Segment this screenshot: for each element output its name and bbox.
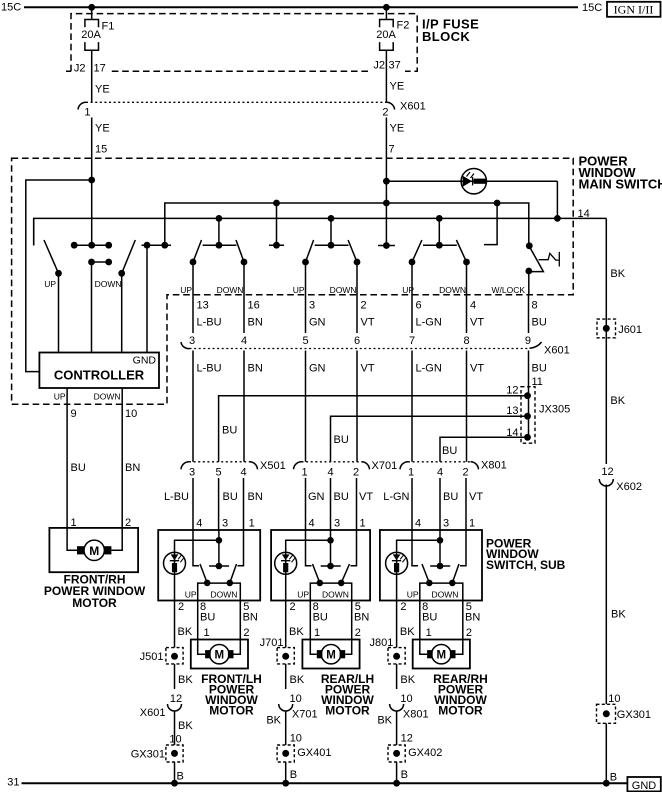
driver switch left bracket: [33, 218, 35, 245]
wire 31 ground bus: [22, 782, 628, 784]
svg-text:CONTROLLER: CONTROLLER: [54, 368, 145, 383]
svg-text:BK: BK: [611, 609, 626, 621]
svg-text:3: 3: [189, 467, 195, 479]
connector X801 left hook: [400, 462, 408, 470]
wire right bar to controller GND: [146, 245, 148, 352]
svg-text:L-BU: L-BU: [164, 491, 189, 503]
wlock detent symbol: [539, 252, 560, 267]
svg-text:SWITCH, SUB: SWITCH, SUB: [486, 558, 566, 572]
junction dot lamp branch sub1: [216, 537, 223, 544]
svg-text:BK: BK: [610, 268, 625, 280]
svg-text:BU: BU: [532, 363, 547, 375]
svg-text:X602: X602: [616, 481, 642, 493]
svg-text:37: 37: [389, 60, 401, 72]
svg-text:10: 10: [608, 693, 620, 705]
svg-text:BN: BN: [248, 317, 263, 329]
svg-text:4: 4: [327, 467, 333, 479]
connector X701 dashed line: [302, 461, 362, 463]
svg-text:X601: X601: [400, 101, 426, 113]
svg-text:8: 8: [532, 300, 538, 312]
svg-text:10: 10: [290, 693, 302, 705]
front-rh motor M: [84, 540, 104, 560]
sub switch 1 DOWN arm: [230, 564, 237, 583]
svg-text:14: 14: [578, 208, 590, 220]
svg-text:UP: UP: [44, 279, 56, 289]
wire VT X601-8 to X801-2: [466, 351, 468, 462]
svg-text:BN: BN: [243, 612, 258, 624]
svg-text:W/LOCK: W/LOCK: [491, 285, 525, 295]
wires switch4 contacts to pins 6 4: [412, 262, 467, 296]
svg-text:1: 1: [84, 107, 90, 119]
svg-text:BU: BU: [313, 612, 328, 624]
svg-text:X701: X701: [372, 460, 398, 472]
svg-text:BK: BK: [377, 715, 392, 727]
svg-text:DOWN: DOWN: [211, 589, 238, 599]
wire UP contact to controller: [58, 273, 60, 352]
svg-text:4: 4: [470, 300, 476, 312]
svg-text:X801: X801: [481, 459, 507, 471]
svg-text:GND: GND: [133, 355, 157, 367]
wire right rail BK pin 14 down: [605, 218, 607, 464]
group2 wire to GX401: [285, 711, 287, 745]
svg-text:BK: BK: [290, 674, 305, 686]
svg-text:3: 3: [222, 517, 228, 529]
sub switch 1 T bar: [209, 565, 229, 567]
junction dot at F1 feed: [88, 4, 95, 11]
switch4 UP arm: [412, 240, 422, 262]
wire F1 feed: [91, 7, 93, 19]
front-rh motor terminals: [77, 546, 84, 554]
svg-text:1: 1: [426, 627, 432, 639]
svg-text:20A: 20A: [81, 29, 101, 41]
svg-text:BN: BN: [465, 612, 480, 624]
svg-text:3: 3: [309, 300, 315, 312]
svg-text:20A: 20A: [376, 29, 396, 41]
junction dot lamp to bus2: [554, 215, 561, 222]
wlock pivot dot: [526, 242, 533, 249]
wire GN X601-5 to X701-1: [305, 351, 307, 462]
sub switch 1 UP arm: [200, 564, 207, 583]
group1 motor terminals: [205, 650, 211, 658]
wire JX305-14 to X801-4: [440, 437, 528, 462]
I/P fuse block dashed box: [66, 14, 417, 72]
switch4 T bar: [423, 244, 457, 246]
svg-text:BU: BU: [334, 434, 349, 446]
svg-text:J701: J701: [260, 637, 284, 649]
svg-text:MAIN SWITCH: MAIN SWITCH: [579, 176, 662, 191]
svg-text:GN: GN: [309, 317, 326, 329]
svg-text:BN: BN: [248, 491, 263, 503]
svg-text:3: 3: [334, 517, 340, 529]
bridge bar sw2/sw3: [269, 203, 284, 245]
connector JX305 dashed box: [521, 387, 535, 444]
connector J701 dashed box: [277, 648, 294, 664]
svg-text:5: 5: [302, 335, 308, 347]
sub switch 1 pin1 bracket: [238, 530, 244, 566]
svg-text:BN: BN: [354, 612, 369, 624]
svg-text:3: 3: [189, 335, 195, 347]
switch2 DOWN arm: [236, 240, 244, 262]
svg-text:2: 2: [353, 467, 359, 479]
svg-text:DOWN: DOWN: [94, 392, 121, 402]
svg-text:M: M: [437, 650, 447, 662]
wires pins to X601 with number gaps: [193, 296, 529, 334]
connector X701 left hook: [294, 462, 302, 470]
sub switch 1 pin4 bracket: [193, 530, 199, 566]
sub switch 3 contact rail: [420, 583, 463, 600]
svg-text:GX402: GX402: [408, 747, 442, 759]
sub switch 2 contact rail: [310, 583, 351, 600]
bridge sw4 right L: [484, 203, 497, 245]
fuse F1: [85, 20, 99, 51]
connector X601 mid left hook: [181, 342, 190, 349]
connector X601 mid right hook and label: [530, 342, 542, 348]
svg-text:17: 17: [94, 63, 106, 75]
switch4 center drop: [438, 218, 440, 245]
svg-text:2: 2: [355, 627, 361, 639]
svg-text:10: 10: [400, 693, 412, 705]
wires X801 to sub switch 3: [412, 478, 466, 530]
svg-text:GX401: GX401: [297, 747, 331, 759]
svg-text:BK: BK: [266, 715, 281, 727]
driver switch gang row2: [92, 261, 109, 263]
svg-text:BK: BK: [289, 626, 304, 638]
svg-text:VT: VT: [470, 363, 484, 375]
wire F2 feed: [385, 7, 387, 19]
connector X701 right hook and label: [362, 462, 370, 470]
wire JX305-13 to X701-4: [331, 416, 528, 462]
group1 motor wiring: [198, 640, 241, 655]
connector X801 dashed line: [408, 461, 471, 463]
wire gang row2 to controller: [91, 262, 93, 353]
svg-text:B: B: [610, 772, 617, 784]
sub switch 2 BU pin3 wire: [330, 530, 332, 566]
sub switch 2 T bar: [321, 565, 341, 567]
svg-text:X501: X501: [260, 460, 286, 472]
switch4 DOWN arm: [456, 240, 466, 262]
group3 motor wiring: [420, 640, 463, 655]
svg-text:5: 5: [216, 467, 222, 479]
connector X501 dashed line: [189, 461, 250, 463]
svg-text:B: B: [290, 769, 297, 781]
svg-text:9: 9: [525, 335, 531, 347]
svg-text:UP: UP: [407, 589, 419, 599]
connector X501 right hook and label: [250, 462, 258, 470]
wire F1 to J2-17: [91, 50, 93, 102]
svg-text:F2: F2: [397, 20, 410, 32]
group2 wire to X701 inline: [285, 664, 287, 689]
wire L-BU X601-3 to X501-3: [192, 351, 194, 462]
group1 BK lamp ground wire: [174, 601, 176, 648]
svg-text:BK: BK: [178, 720, 193, 732]
svg-text:13: 13: [197, 300, 209, 312]
wires X701 to sub switch 2: [306, 478, 357, 530]
wires switch3 contacts to pins 3 2: [306, 262, 358, 296]
svg-text:M: M: [326, 650, 336, 662]
svg-text:MOTOR: MOTOR: [72, 596, 117, 610]
wire controller UP pin 9: [66, 388, 68, 528]
svg-text:DOWN: DOWN: [322, 589, 349, 599]
sub switch 2 box rear-lh: [271, 530, 370, 601]
svg-text:YE: YE: [95, 123, 110, 135]
svg-text:MOTOR: MOTOR: [325, 704, 370, 718]
ground connector GX301 right rail: [597, 704, 616, 723]
svg-text:3: 3: [443, 517, 449, 529]
svg-text:VT: VT: [361, 363, 375, 375]
svg-text:12: 12: [170, 693, 182, 705]
connector J801 dashed box: [388, 648, 405, 664]
svg-text:YE: YE: [390, 123, 405, 135]
driver switch UP arm: [44, 240, 59, 273]
svg-text:L-BU: L-BU: [197, 363, 222, 375]
sub switch 2 DOWN arm: [341, 564, 349, 583]
wire VT X601-6 to X701-2: [356, 351, 358, 462]
svg-text:1: 1: [204, 627, 210, 639]
junction dot bus1 bridge sw4: [494, 200, 501, 207]
svg-text:BU: BU: [222, 425, 237, 437]
svg-text:GX301: GX301: [617, 709, 651, 721]
fuse F2: [380, 20, 394, 51]
controller box: [39, 353, 159, 389]
svg-text:IGN I/II: IGN I/II: [614, 3, 654, 17]
group1 wire B to ground bus: [174, 762, 176, 783]
sub switch 2 pin4 bracket: [306, 530, 312, 566]
svg-text:1: 1: [249, 517, 255, 529]
wlock switch arm: [529, 249, 544, 272]
svg-text:DOWN: DOWN: [330, 285, 357, 295]
wire pin15 into switch: [91, 158, 93, 245]
svg-text:L-GN: L-GN: [416, 317, 442, 329]
svg-text:BK: BK: [178, 674, 193, 686]
group1 motor M: [210, 645, 229, 664]
svg-text:L-GN: L-GN: [416, 363, 442, 375]
power window main switch dashed outline: [12, 158, 574, 404]
wire right rail to ground bus: [605, 723, 607, 783]
switch3 DOWN arm: [348, 240, 357, 262]
svg-text:JX305: JX305: [539, 404, 570, 416]
svg-text:15C: 15C: [1, 2, 21, 14]
junction dot bus1 bridge sw2/sw3: [273, 200, 280, 207]
svg-text:BLOCK: BLOCK: [422, 29, 470, 44]
wire bus1 upper: [165, 203, 529, 246]
wire bus2 lower to pin 14: [34, 218, 607, 245]
switch3 UP arm: [306, 240, 314, 262]
group1 motor box front-lh: [191, 640, 248, 669]
svg-text:4: 4: [437, 467, 443, 479]
sub switch 3 DOWN arm: [452, 564, 459, 583]
illumination LED sub2: [275, 552, 297, 574]
svg-text:10: 10: [125, 408, 137, 420]
svg-text:MOTOR: MOTOR: [209, 704, 254, 718]
switch3 T bar: [315, 244, 349, 246]
wire F2 to J2-37: [385, 50, 387, 102]
wire 15C power bus top: [24, 6, 578, 8]
group3 wires to motor: [420, 601, 463, 640]
group3 motor terminals: [427, 650, 433, 658]
svg-text:2: 2: [361, 300, 367, 312]
svg-text:L-GN: L-GN: [383, 491, 409, 503]
svg-text:B: B: [401, 769, 408, 781]
svg-text:31: 31: [7, 777, 19, 789]
svg-text:VT: VT: [469, 491, 483, 503]
svg-text:GX301: GX301: [131, 749, 165, 761]
driver switch UP contact dot: [55, 270, 62, 277]
svg-text:M: M: [89, 544, 99, 558]
group2 motor M: [321, 645, 340, 664]
svg-text:1: 1: [360, 517, 366, 529]
group3 BK lamp ground wire: [396, 601, 398, 648]
svg-text:4: 4: [240, 467, 246, 479]
junction dot lamp tap: [383, 178, 390, 185]
wire YE X601-1 to main switch pin 15: [91, 118, 93, 159]
svg-text:L-BU: L-BU: [197, 317, 222, 329]
driver switch DOWN contact dot: [118, 270, 125, 277]
svg-text:1: 1: [408, 467, 414, 479]
junction dot bus1 pin7: [383, 200, 390, 207]
group3 motor box rear-rh: [413, 640, 470, 669]
svg-text:1: 1: [314, 627, 320, 639]
svg-text:UP: UP: [54, 392, 66, 402]
connector J501 dashed box: [166, 648, 183, 664]
svg-text:BU: BU: [443, 491, 458, 503]
svg-text:YE: YE: [390, 81, 405, 93]
connector X601 top left hook: [78, 102, 86, 109]
svg-text:X701: X701: [292, 709, 318, 721]
svg-text:YE: YE: [95, 84, 110, 96]
svg-text:2: 2: [290, 601, 296, 613]
group1 wires to motor: [198, 601, 241, 640]
ground connector GX402 group3: [388, 745, 405, 762]
ground connector GX301 group1: [166, 745, 183, 762]
connector J601 dashed box: [597, 319, 616, 338]
sub switch 3 UP arm: [422, 564, 429, 583]
ground connector GX401 group2: [277, 745, 294, 762]
svg-text:BN: BN: [125, 462, 140, 474]
group2 wires to motor: [310, 601, 351, 640]
sub switch 3 pin4 bracket: [412, 530, 418, 566]
junction dot lamp branch sub3: [437, 537, 444, 544]
wire wlock contact to pin 8: [528, 271, 530, 296]
front-rh motor box: [49, 528, 138, 572]
svg-text:DOWN: DOWN: [95, 279, 122, 289]
svg-text:GND: GND: [632, 780, 657, 792]
svg-text:2: 2: [466, 627, 472, 639]
switch2 center drop: [218, 218, 220, 245]
group2 motor box rear-lh: [302, 640, 359, 669]
junction dot lamp branch sub2: [327, 537, 334, 544]
svg-text:BU: BU: [442, 445, 457, 457]
svg-text:6: 6: [354, 335, 360, 347]
wire lamp branch sub1: [175, 540, 219, 600]
wires X501 to sub switch 1: [193, 478, 244, 530]
driver switch gang row1: [74, 244, 109, 246]
group1 wire to GX301: [174, 711, 176, 745]
svg-text:B: B: [177, 771, 184, 783]
svg-text:X601: X601: [544, 345, 570, 357]
group3 wire to GX402: [396, 711, 398, 745]
svg-text:GN: GN: [309, 363, 326, 375]
sub switch 1 box front-lh: [158, 530, 260, 601]
wire L-GN X601-7 to X801-1: [411, 351, 413, 462]
connector X501 left hook: [181, 462, 189, 470]
illumination lamp: [461, 169, 486, 194]
sub switch 3 box rear-rh: [380, 530, 482, 601]
svg-text:8: 8: [463, 335, 469, 347]
connector X601 mid dashed line: [190, 348, 531, 350]
group3 wire B to ground bus: [396, 762, 398, 783]
switch2 UP arm: [193, 240, 202, 262]
svg-text:2: 2: [400, 601, 406, 613]
svg-text:J801: J801: [370, 637, 394, 649]
wire BU X601-9 to JX305 pin 11: [528, 351, 530, 387]
connector X801 right hook and label: [471, 462, 479, 470]
svg-text:16: 16: [248, 300, 260, 312]
illumination LED sub3: [386, 552, 408, 574]
svg-text:BN: BN: [248, 363, 263, 375]
svg-text:J601: J601: [618, 324, 642, 336]
wire BN X601-4 to X501-4: [243, 351, 245, 462]
wire right rail below X602: [605, 485, 607, 705]
svg-text:DOWN: DOWN: [217, 285, 244, 295]
svg-text:J501: J501: [140, 651, 164, 663]
wire branch to controller left: [26, 180, 92, 372]
svg-text:M: M: [215, 650, 225, 662]
illumination LED sub1: [164, 552, 186, 574]
svg-text:VT: VT: [361, 317, 375, 329]
wire lamp branch sub3: [397, 540, 440, 600]
svg-text:15: 15: [95, 144, 107, 156]
svg-text:1: 1: [469, 517, 475, 529]
wire JX305 internal joint: [528, 387, 530, 438]
svg-text:6: 6: [416, 300, 422, 312]
svg-text:BU: BU: [334, 491, 349, 503]
wire pin7 into switch through lamp node: [385, 158, 387, 245]
svg-text:2: 2: [382, 107, 388, 119]
svg-text:MOTOR: MOTOR: [438, 704, 483, 718]
svg-text:10: 10: [290, 733, 302, 745]
wlock contact dot: [525, 268, 532, 275]
svg-text:UP: UP: [185, 589, 197, 599]
svg-text:UP: UP: [180, 285, 192, 295]
svg-text:7: 7: [409, 335, 415, 347]
svg-text:4: 4: [415, 517, 421, 529]
svg-text:DOWN: DOWN: [439, 285, 466, 295]
group3 wire to X801 inline: [396, 664, 398, 689]
group2 motor terminals: [317, 650, 323, 658]
sub switch 1 contact rail: [198, 583, 241, 600]
connector X601 top row dashed line: [86, 101, 386, 103]
junction dot pin15 branch: [88, 177, 95, 184]
wire controller DOWN pin 10: [121, 388, 123, 528]
wire lamp branch sub2: [286, 540, 331, 600]
svg-text:J2: J2: [74, 63, 86, 75]
svg-text:VT: VT: [470, 317, 484, 329]
bridge bar sw3/sw4 from pin7: [378, 245, 395, 247]
connector X601 top right hook and label: [386, 102, 394, 109]
front-rh motor wiring: [67, 528, 122, 550]
wire YE X601-2 to main switch pin 7: [385, 118, 387, 159]
svg-text:X601: X601: [140, 707, 166, 719]
driver switch right bar: [142, 244, 172, 246]
svg-text:4: 4: [241, 335, 247, 347]
wires switch2 contacts to pins 13 16: [193, 262, 244, 296]
group3 motor M: [432, 645, 451, 664]
wire DOWN contact to controller: [121, 273, 123, 352]
svg-text:4: 4: [196, 517, 202, 529]
svg-text:12: 12: [601, 466, 613, 478]
switch2 T bar: [203, 244, 237, 246]
switch3 center drop: [330, 218, 332, 245]
